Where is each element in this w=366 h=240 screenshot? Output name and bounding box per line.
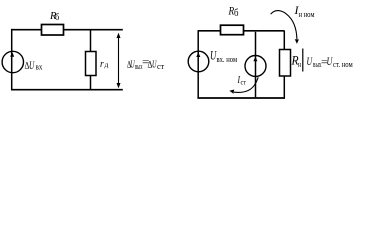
- label Rn: [291, 54, 302, 70]
- svg-text:д: д: [105, 61, 109, 69]
- label Rb left: [49, 10, 60, 22]
- svg-text:б: б: [234, 8, 238, 19]
- label dUvx: [25, 60, 43, 72]
- resistor rd box: [86, 52, 97, 76]
- svg-text:U: U: [327, 56, 333, 68]
- label Rb right: [228, 4, 239, 20]
- wire left branch (right circuit): [197, 30, 199, 98]
- wire right branch: [283, 31, 285, 98]
- svg-text:вх. ном: вх. ном: [217, 55, 238, 64]
- svg-text:вх: вх: [36, 63, 43, 72]
- label Uvx.nom: [210, 49, 237, 65]
- resistor Rb left box: [42, 25, 64, 36]
- stabilitron arrowhead: [253, 56, 257, 61]
- svg-text:ст: ст: [241, 78, 247, 87]
- wire bottom (right circuit): [197, 97, 285, 99]
- label Uvyh=Ust.nom: [307, 56, 353, 69]
- current arrow Ist curved: [229, 77, 258, 93]
- label Ist: [237, 75, 247, 87]
- wire rd branch: [90, 30, 92, 90]
- svg-text:н ном: н ном: [299, 10, 315, 19]
- svg-text:U: U: [29, 60, 35, 72]
- source dUvx EMF circle: [2, 51, 23, 72]
- svg-text:б: б: [55, 12, 60, 22]
- wire top (left circuit): [11, 29, 123, 31]
- current arrow In.nom curved: [271, 11, 299, 44]
- dimension arrow dUvyh: [117, 33, 121, 89]
- label dUvyh=dUst: [127, 57, 165, 71]
- svg-text:ст. ном: ст. ном: [333, 60, 353, 69]
- resistor Rn box: [280, 50, 291, 77]
- source Uvx.nom EMF circle: [188, 51, 209, 72]
- wire middle branch stabilitron: [255, 32, 257, 97]
- svg-text:н: н: [298, 60, 302, 69]
- svg-text:ст: ст: [157, 62, 165, 71]
- source dUvx arrowhead: [10, 52, 14, 57]
- svg-text:r: r: [100, 59, 104, 70]
- resistor Rb right box: [221, 25, 244, 35]
- label In.nom: [294, 3, 315, 19]
- svg-text:U: U: [307, 56, 313, 68]
- stabilitron circle: [245, 56, 266, 77]
- wire top (right circuit): [198, 30, 285, 32]
- label rd: [100, 59, 109, 70]
- source Uvx.nom arrowhead: [196, 52, 200, 57]
- dimension bar Uvyh: [302, 49, 304, 72]
- wire left branch (left circuit): [11, 29, 13, 90]
- wire bottom (left circuit): [11, 89, 123, 91]
